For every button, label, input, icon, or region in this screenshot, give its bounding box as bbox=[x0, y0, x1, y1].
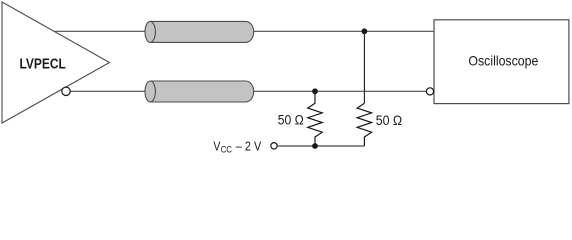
terminal circle for Vcc-2V supply bbox=[271, 143, 277, 149]
svg-text:LVPECL: LVPECL bbox=[20, 56, 66, 72]
resistor R2 50 ohm (right, zigzag) bbox=[357, 103, 372, 146]
resistor R1 50 ohm (left, zigzag) bbox=[308, 91, 323, 146]
wire: bottom termination rail to Vcc-2V terminal bbox=[277, 145, 364, 147]
inversion bubble on complementary output bbox=[62, 87, 70, 95]
svg-text:50 Ω: 50 Ω bbox=[278, 113, 304, 128]
junction dot on termination rail at R1 bottom bbox=[312, 143, 318, 149]
wire: vertical drop from top wire to resistor R2 bbox=[363, 31, 365, 103]
oscilloscope box bbox=[434, 20, 569, 104]
svg-text:Oscilloscope: Oscilloscope bbox=[468, 52, 538, 68]
svg-text:50 Ω: 50 Ω bbox=[376, 113, 403, 128]
wire: bottom output wire from bubble to oscilloscope input bbox=[70, 90, 427, 92]
svg-text:CC: CC bbox=[221, 144, 233, 154]
wire: top output wire from driver to oscilloscope bbox=[55, 30, 435, 32]
svg-text:V: V bbox=[213, 138, 220, 153]
transmission line W1 (top coax cylinder) bbox=[145, 21, 254, 42]
driver U1 LVPECL buffer triangle bbox=[2, 2, 110, 123]
junction dot on top wire at R2 bbox=[362, 28, 368, 34]
oscilloscope input terminal circle bbox=[426, 88, 433, 95]
transmission line W2 (bottom coax cylinder) bbox=[145, 81, 254, 102]
junction dot on bottom wire at R1 bbox=[312, 88, 318, 94]
label Vcc - 2 V bbox=[213, 138, 261, 155]
svg-text:– 2 V: – 2 V bbox=[236, 138, 262, 153]
